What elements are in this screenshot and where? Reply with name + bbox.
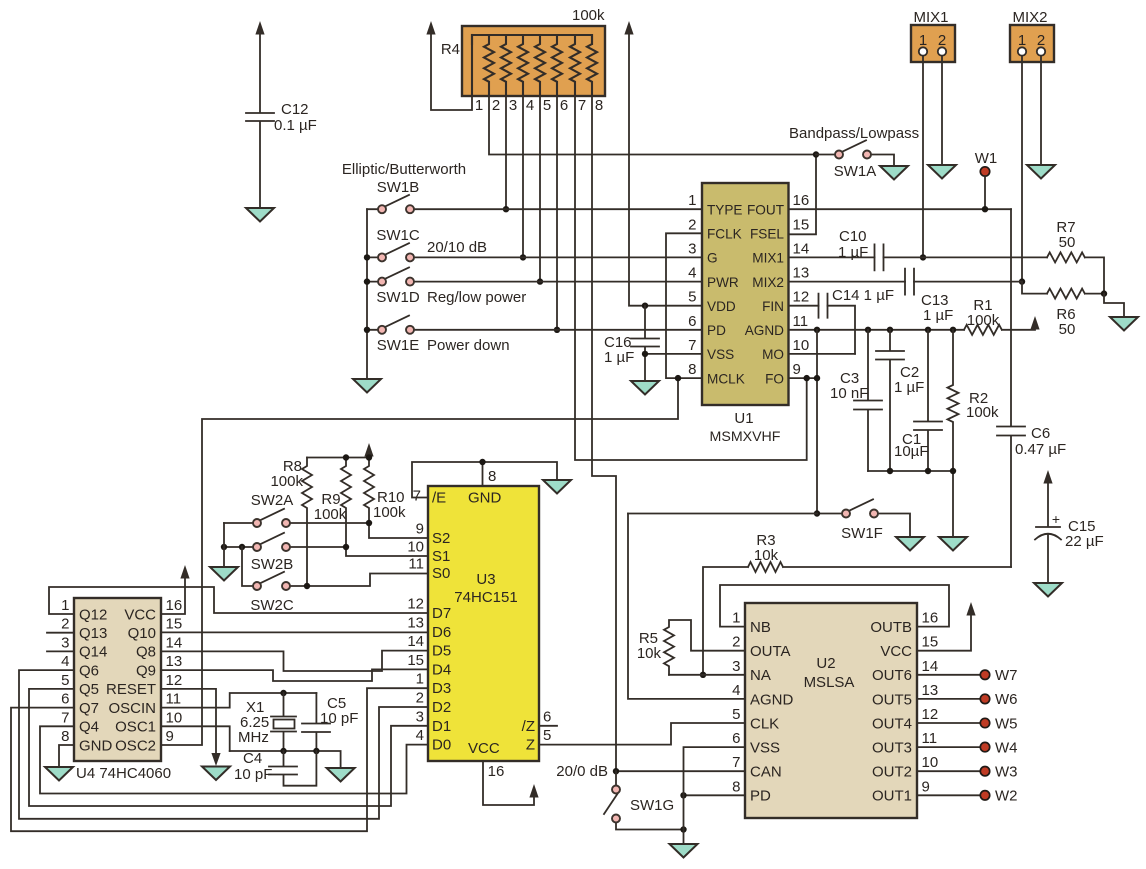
svg-text:W2: W2	[995, 788, 1018, 805]
ground MIX1 pin2	[928, 165, 956, 179]
node MCLK/FCLK	[675, 375, 681, 381]
svg-text:FIN: FIN	[762, 299, 784, 314]
wire U2 NB-OUTB loop	[720, 585, 949, 627]
supply arrow R1	[1030, 316, 1039, 330]
ground SW1G	[670, 844, 698, 858]
svg-text:100k: 100k	[270, 473, 303, 490]
svg-text:12: 12	[166, 672, 183, 689]
wire MIX1 net	[789, 256, 875, 258]
svg-text:3: 3	[509, 97, 517, 114]
svg-text:U2: U2	[816, 655, 835, 672]
svg-text:3: 3	[732, 658, 740, 675]
node SW2C/R8	[304, 583, 310, 589]
svg-text:6: 6	[543, 708, 551, 725]
node rail R2	[950, 468, 956, 474]
node SW2B/SW2C	[239, 544, 245, 550]
svg-text:C6: C6	[1031, 425, 1050, 442]
svg-text:NB: NB	[750, 619, 771, 636]
svg-text:Q14: Q14	[79, 644, 107, 661]
wire VSS	[645, 353, 702, 355]
svg-text:3: 3	[61, 634, 69, 651]
svg-text:SW1A: SW1A	[834, 163, 877, 180]
wire U3 /E and GND to ground	[412, 462, 557, 498]
wire U2 AGND up-left	[628, 514, 745, 699]
svg-text:D6: D6	[432, 624, 451, 641]
node R4 pin3 / TYPE	[503, 206, 509, 212]
svg-text:CLK: CLK	[750, 715, 779, 732]
wire R6 right	[1085, 293, 1104, 295]
svg-text:100k: 100k	[373, 504, 406, 521]
svg-text:C4: C4	[243, 750, 262, 767]
svg-text:1: 1	[61, 597, 69, 614]
node R2 top	[950, 327, 956, 333]
svg-text:D7: D7	[432, 605, 451, 622]
svg-text:6: 6	[732, 730, 740, 747]
wire U2 VSS to PD net	[684, 747, 746, 829]
svg-text:W6: W6	[995, 691, 1018, 708]
wire U4 VCC to supply	[161, 577, 185, 614]
node R10 top	[366, 454, 372, 460]
node SW1A junction	[813, 151, 819, 157]
pad W1	[975, 150, 998, 167]
wire U4 Q7 to U3 D3	[11, 688, 428, 831]
wire OUT6 to W7	[917, 674, 980, 676]
svg-text:10k: 10k	[637, 645, 662, 662]
wire FSEL to SW1A	[789, 155, 817, 235]
resistor R2	[948, 330, 1000, 537]
svg-text:W1: W1	[975, 150, 998, 167]
wire AGND branch down to SW1F	[816, 330, 818, 514]
svg-text:4: 4	[732, 682, 740, 699]
capacitor C13	[905, 269, 953, 324]
node MIX2 pin1	[1019, 278, 1025, 284]
wire R7 right to R6 right	[1085, 257, 1104, 293]
supply arrow R10	[364, 443, 373, 457]
svg-text:+: +	[1052, 511, 1060, 527]
wire MIX2 pin2 to ground	[1040, 56, 1042, 165]
svg-text:6: 6	[61, 691, 69, 708]
switch SW1D	[367, 267, 702, 306]
svg-text:14: 14	[922, 658, 939, 675]
svg-text:10 pF: 10 pF	[320, 710, 358, 727]
svg-text:1: 1	[475, 97, 483, 114]
wire R8-R10 top rail to supply	[307, 455, 369, 458]
capacitor C3	[830, 330, 882, 471]
svg-text:1 µF: 1 µF	[923, 307, 953, 324]
svg-text:C12: C12	[281, 101, 309, 118]
crystal X1	[238, 693, 296, 751]
wire C14 to MO	[828, 306, 856, 354]
svg-text:16: 16	[922, 610, 939, 627]
svg-text:12: 12	[407, 596, 424, 613]
wire U4 Q4 to U3 D0	[40, 726, 428, 793]
svg-text:3: 3	[688, 240, 696, 257]
node FO end	[814, 375, 820, 381]
wire R4 pin1 to supply	[431, 33, 472, 110]
node U3 pin8//E	[479, 459, 485, 465]
wire AGND U1	[789, 329, 965, 331]
node C3 top	[865, 327, 871, 333]
resistor R3	[703, 532, 1011, 675]
wire R1 right with supply arrow	[1002, 328, 1035, 330]
svg-text:GND: GND	[468, 490, 502, 507]
svg-text:2: 2	[416, 690, 424, 707]
wire C13 to MIX2 pin1 node	[914, 281, 1022, 283]
svg-text:14: 14	[407, 633, 424, 650]
wire U4 GND to ground	[59, 745, 74, 767]
wire R4 pin4 down	[522, 96, 524, 257]
wire MIX2 pin1 down	[1021, 56, 1023, 282]
node VDD/C16	[642, 303, 648, 309]
svg-text:16: 16	[793, 192, 810, 209]
svg-text:MIX2: MIX2	[1012, 9, 1047, 26]
wire U3 pin8 stub	[482, 462, 484, 486]
svg-text:13: 13	[407, 614, 424, 631]
resistor R6	[1047, 289, 1085, 338]
resistor R8	[270, 458, 312, 587]
R4 internal pin1 wire	[471, 35, 473, 96]
svg-text:OUT6: OUT6	[872, 667, 912, 684]
svg-text:MO: MO	[762, 347, 784, 362]
node rail/SW1E	[364, 327, 370, 333]
svg-text:15: 15	[922, 634, 939, 651]
wire U4 OSCIN to oscillator top rail	[161, 693, 316, 708]
svg-text:2: 2	[61, 616, 69, 633]
svg-text:9: 9	[922, 778, 930, 795]
wire W1 to FOUT	[984, 176, 986, 209]
wire SW1G node to ground	[683, 830, 685, 845]
svg-text:AGND: AGND	[745, 323, 784, 338]
svg-text:D1: D1	[432, 718, 451, 735]
supply arrow R4 pin1	[426, 21, 435, 35]
svg-text:10: 10	[922, 754, 939, 771]
svg-text:74HC151: 74HC151	[454, 589, 517, 606]
node rail C1	[925, 468, 931, 474]
svg-text:OUTA: OUTA	[750, 643, 791, 660]
svg-text:PD: PD	[750, 788, 771, 805]
node R6/R7	[1101, 290, 1107, 296]
svg-text:8: 8	[595, 97, 603, 114]
ground R6R7	[1110, 317, 1138, 331]
svg-text:OSC1: OSC1	[115, 719, 156, 736]
wire OUT5 to W6	[917, 698, 980, 700]
svg-text:OUTB: OUTB	[870, 619, 912, 636]
svg-text:W3: W3	[995, 764, 1018, 781]
svg-text:7: 7	[688, 337, 696, 354]
svg-text:Q13: Q13	[79, 625, 107, 642]
svg-text:W4: W4	[995, 739, 1018, 756]
ground R2	[939, 537, 967, 551]
wire OUT2 to W3	[917, 770, 980, 772]
node rail/SW1D	[364, 278, 370, 284]
svg-text:OSC2: OSC2	[115, 737, 156, 754]
svg-text:2: 2	[732, 634, 740, 651]
connector MIX1 pin circles	[919, 47, 927, 55]
svg-text:10µF: 10µF	[894, 443, 929, 460]
svg-text:S2: S2	[432, 530, 450, 547]
svg-text:MIX1: MIX1	[913, 9, 948, 26]
svg-text:RESET: RESET	[106, 681, 156, 698]
svg-text:7: 7	[413, 488, 421, 505]
capacitor C10	[838, 228, 884, 270]
svg-text:U4 74HC4060: U4 74HC4060	[76, 765, 171, 782]
switch SW2C	[242, 547, 428, 614]
svg-text:13: 13	[922, 682, 939, 699]
svg-text:FOUT: FOUT	[747, 203, 784, 218]
ground SW2 rail	[210, 567, 238, 581]
wire FIN to C14	[789, 305, 819, 307]
svg-text:11: 11	[166, 691, 182, 708]
svg-text:4: 4	[688, 265, 696, 282]
node CAN / SW1G	[613, 768, 619, 774]
svg-text:16: 16	[488, 763, 505, 780]
svg-text:Power down: Power down	[427, 337, 510, 354]
wire MO	[789, 353, 856, 355]
svg-text:Q10: Q10	[128, 625, 156, 642]
svg-text:100k: 100k	[572, 7, 605, 24]
svg-text:7: 7	[578, 97, 586, 114]
wire U4 Q6 to U3 D2	[19, 670, 428, 819]
svg-text:FCLK: FCLK	[707, 227, 742, 242]
resistor R10	[364, 458, 406, 524]
svg-text:50: 50	[1059, 234, 1076, 251]
svg-text:7: 7	[732, 754, 740, 771]
svg-text:SW1D: SW1D	[376, 289, 420, 306]
svg-text:20/10 dB: 20/10 dB	[427, 239, 487, 256]
svg-text:Bandpass/Lowpass: Bandpass/Lowpass	[789, 125, 919, 142]
supply arrow VDD	[624, 21, 633, 35]
node X1 top	[280, 690, 286, 696]
capacitor C4	[234, 750, 316, 786]
wire R4 pin8 to CAN net	[592, 96, 616, 771]
wire C-group bottom rail	[868, 470, 953, 472]
resistor network R4 body	[441, 7, 605, 114]
connector MIX2 body	[1010, 9, 1054, 62]
svg-text:OUT2: OUT2	[872, 764, 912, 781]
wire C10 to R7	[884, 256, 1048, 258]
svg-text:VSS: VSS	[707, 347, 734, 362]
svg-text:0.47 µF: 0.47 µF	[1015, 441, 1066, 458]
capacitor C5	[302, 693, 358, 751]
svg-text:Q6: Q6	[79, 662, 99, 679]
svg-text:U3: U3	[476, 571, 495, 588]
svg-text:11: 11	[408, 556, 424, 573]
svg-text:1: 1	[416, 671, 424, 688]
svg-text:6: 6	[560, 97, 568, 114]
capacitor C16	[604, 306, 659, 381]
wire OUT3 to W4	[917, 746, 980, 748]
ground C16	[631, 381, 659, 395]
pad W2	[980, 791, 989, 800]
wire U2 VCC to supply	[917, 614, 971, 651]
node VSS/C16	[642, 351, 648, 357]
svg-text:Q8: Q8	[136, 644, 156, 661]
svg-text:SW2B: SW2B	[251, 556, 294, 573]
resistor R5	[637, 620, 745, 675]
svg-text:4: 4	[526, 97, 534, 114]
svg-text:6: 6	[688, 313, 696, 330]
svg-text:SW1E: SW1E	[377, 337, 420, 354]
node FO tap	[804, 375, 810, 381]
node R3 / NA	[700, 672, 706, 678]
svg-text:OSCIN: OSCIN	[108, 700, 156, 717]
wire MIX1 pin2 to ground	[941, 56, 943, 165]
pad W7	[980, 670, 989, 679]
switch SW1B	[342, 161, 702, 209]
svg-text:VCC: VCC	[124, 606, 156, 623]
wire FCLK to MCLK node	[666, 233, 702, 378]
switch SW2A	[224, 492, 428, 538]
pad W3	[980, 767, 989, 776]
node MIX1 pin1	[920, 254, 926, 260]
svg-text:C14 1 µF: C14 1 µF	[832, 287, 894, 304]
pad W6	[980, 694, 989, 703]
wire U2 PD	[684, 794, 746, 796]
svg-text:D3: D3	[432, 680, 451, 697]
connector MIX1 body	[911, 9, 955, 62]
pad W5	[980, 718, 989, 727]
arrowhead RESET ground	[211, 753, 220, 766]
node rail C2	[887, 468, 893, 474]
svg-text:AGND: AGND	[750, 691, 794, 708]
svg-text:D4: D4	[432, 661, 451, 678]
svg-text:1 µF: 1 µF	[894, 379, 924, 396]
svg-text:50: 50	[1059, 321, 1076, 338]
svg-text:8: 8	[688, 361, 696, 378]
svg-text:13: 13	[166, 653, 183, 670]
wire MCLK from U4 OSC2	[161, 378, 702, 745]
svg-text:10 nF: 10 nF	[830, 385, 868, 402]
svg-text:R4: R4	[441, 41, 460, 58]
svg-text:8: 8	[488, 468, 496, 485]
svg-text:TYPE: TYPE	[707, 203, 743, 218]
ground SW1 rail	[353, 379, 381, 393]
IC U1 MSMXVHF body	[688, 183, 809, 445]
wire OUT4 to W5	[917, 722, 980, 724]
wire R4 pin7 to FO net	[575, 96, 807, 460]
wire U4 OSC1 to bottom rail	[161, 726, 230, 751]
svg-text:10: 10	[407, 539, 424, 556]
wire U4 Q13 stub	[47, 632, 74, 634]
wire U4 RESET to ground	[161, 689, 216, 757]
svg-text:MIX2: MIX2	[752, 275, 784, 290]
svg-text:15: 15	[166, 616, 183, 633]
switch SW1G	[556, 763, 683, 830]
switch SW1F	[817, 499, 910, 542]
node W1/FOUT	[982, 206, 988, 212]
wire FO	[789, 377, 818, 379]
svg-text:Q9: Q9	[136, 662, 156, 679]
svg-text:VSS: VSS	[750, 740, 780, 757]
svg-text:20/0 dB: 20/0 dB	[556, 763, 608, 780]
svg-text:4: 4	[61, 653, 69, 670]
svg-text:VCC: VCC	[468, 740, 500, 757]
svg-text:MSMXVHF: MSMXVHF	[710, 429, 781, 445]
svg-text:15: 15	[407, 652, 424, 669]
svg-text:/E: /E	[432, 490, 446, 507]
wire U3 /Z stub	[539, 725, 557, 727]
capacitor C2	[876, 330, 924, 471]
svg-text:1 µF: 1 µF	[604, 349, 634, 366]
switch SW2B	[224, 533, 428, 573]
wire U4 Q14 stub	[47, 650, 74, 652]
svg-text:S0: S0	[432, 565, 450, 582]
wire MIX1 pin1 down	[922, 56, 924, 257]
svg-text:U1: U1	[734, 410, 753, 427]
ground below C12	[246, 208, 274, 222]
svg-text:4: 4	[416, 727, 424, 744]
wire U4 Q12 to U3 D7	[49, 587, 428, 614]
svg-text:1 µF: 1 µF	[838, 244, 868, 261]
svg-text:SW2C: SW2C	[250, 597, 294, 614]
svg-text:100k: 100k	[967, 312, 1000, 329]
wire U4 Q8 to U3 D5	[161, 651, 428, 671]
capacitor C15	[1035, 481, 1104, 583]
node rail/SW1C	[364, 254, 370, 260]
svg-text:OUT1: OUT1	[872, 788, 912, 805]
svg-text:OUT4: OUT4	[872, 715, 912, 732]
ground C15	[1034, 583, 1062, 597]
wire U4 Q9 to U3 D4	[161, 669, 428, 681]
svg-text:10 pF: 10 pF	[234, 766, 272, 783]
ground U4 GND	[45, 767, 73, 781]
IC U2 MSLSA body	[732, 603, 938, 818]
svg-text:Reg/low power: Reg/low power	[427, 289, 526, 306]
svg-text:Z: Z	[526, 737, 535, 754]
svg-text:W5: W5	[995, 715, 1018, 732]
svg-text:5: 5	[543, 727, 551, 744]
ground SW1F	[896, 537, 924, 551]
connector MIX2 pin circles	[1018, 47, 1026, 55]
wire R6R7 node to ground	[1104, 294, 1124, 317]
svg-text:Q12: Q12	[79, 606, 107, 623]
svg-text:1: 1	[688, 192, 696, 209]
svg-text:100k: 100k	[314, 506, 347, 523]
svg-text:FSEL: FSEL	[750, 227, 784, 242]
svg-text:VCC: VCC	[880, 643, 912, 660]
svg-text:NA: NA	[750, 667, 771, 684]
node R9 top	[343, 454, 349, 460]
svg-text:MSLSA: MSLSA	[804, 674, 855, 691]
svg-text:SW1F: SW1F	[841, 525, 883, 542]
switch SW1C	[367, 227, 702, 257]
svg-text:PD: PD	[707, 323, 726, 338]
switch SW1A	[789, 125, 919, 180]
capacitor C1	[894, 330, 942, 471]
svg-text:5: 5	[543, 97, 551, 114]
wire R4 pin5 down	[539, 96, 541, 282]
supply arrow U2 VCC	[966, 602, 975, 616]
wire R4 pin3 down	[505, 96, 507, 209]
capacitor C6	[997, 209, 1066, 567]
svg-text:10: 10	[793, 337, 810, 354]
svg-text:11: 11	[922, 730, 938, 747]
svg-text:7: 7	[61, 709, 69, 726]
svg-text:Q7: Q7	[79, 700, 99, 717]
node SW2A/R10	[366, 520, 372, 526]
svg-text:D0: D0	[432, 737, 451, 754]
wire U2 CAN	[616, 770, 745, 772]
node SW2B/R9	[343, 544, 349, 550]
supply arrow U4 VCC	[180, 565, 189, 579]
ground oscillator rail	[327, 768, 355, 782]
wire U3 Z to U2 CLK	[539, 723, 745, 745]
wire OUT1 to W2	[917, 794, 980, 796]
svg-text:D5: D5	[432, 643, 451, 660]
svg-text:C10: C10	[839, 228, 867, 245]
node C2 top	[887, 327, 893, 333]
svg-text:SW1G: SW1G	[630, 797, 674, 814]
